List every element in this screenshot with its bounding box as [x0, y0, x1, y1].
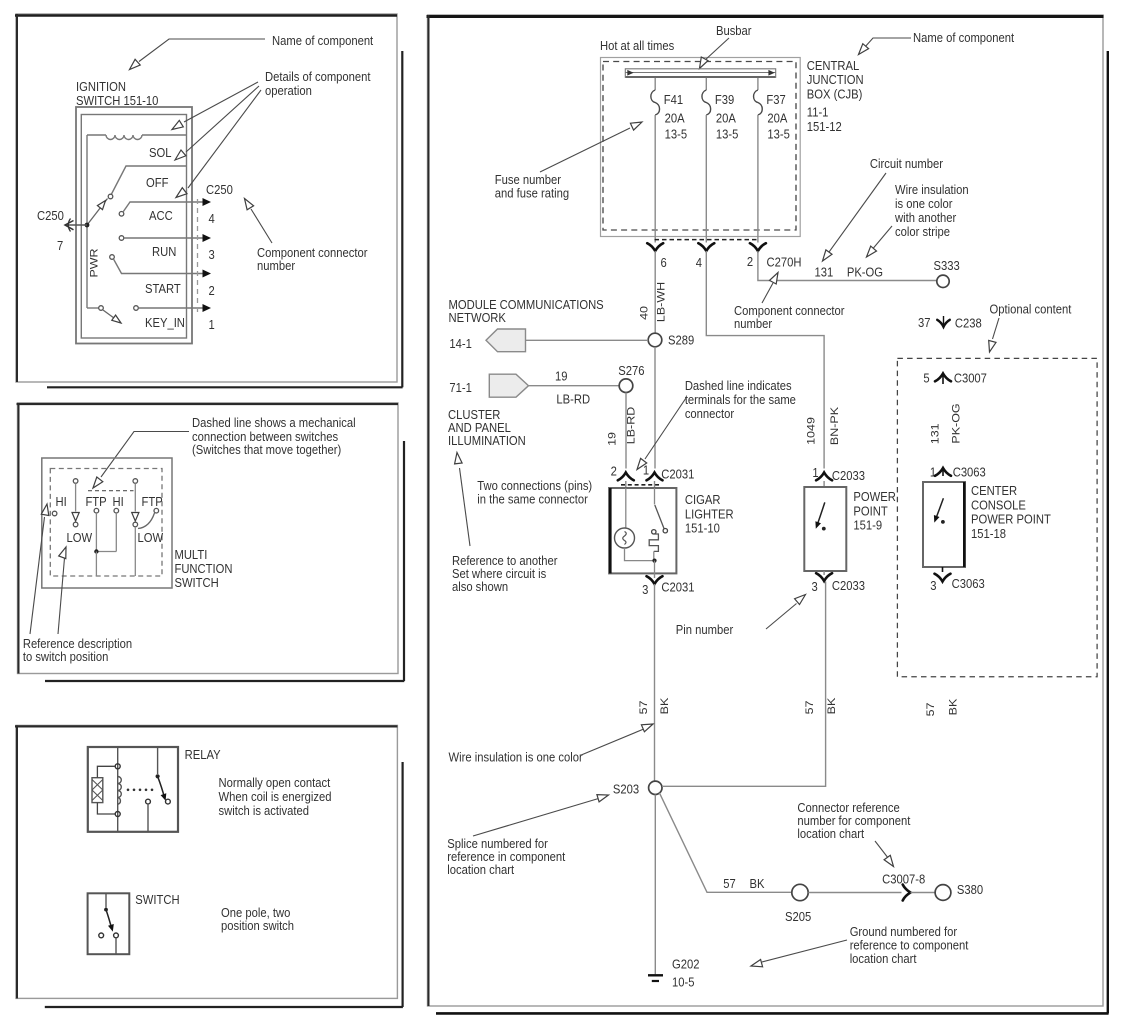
relay switch feed	[157, 747, 159, 774]
cigar lighter stub wires	[625, 481, 627, 488]
svg-text:20A: 20A	[767, 111, 788, 126]
svg-text:terminals for the same: terminals for the same	[685, 392, 796, 407]
optional content dashed boundary	[897, 358, 1097, 676]
svg-text:1: 1	[208, 317, 214, 332]
page shadow of legend panel 2	[403, 441, 405, 681]
off-page connector to sheet 14-1	[486, 329, 526, 352]
cigar lighter lamp lower wire	[625, 548, 655, 561]
svg-text:14-1: 14-1	[449, 336, 472, 351]
switch S2 contact right	[114, 933, 119, 938]
svg-text:ILLUMINATION: ILLUMINATION	[448, 433, 526, 448]
svg-text:CONSOLE: CONSOLE	[971, 498, 1026, 513]
svg-text:G202: G202	[672, 957, 700, 972]
svg-text:number: number	[257, 258, 295, 273]
svg-text:19: 19	[606, 432, 618, 446]
svg-text:LOW: LOW	[67, 530, 93, 545]
svg-text:JUNCTION: JUNCTION	[807, 72, 864, 87]
svg-text:and fuse rating: and fuse rating	[495, 186, 569, 201]
switch B wire to boundary	[95, 552, 97, 577]
leader to HI label	[30, 517, 45, 634]
svg-text:Hot at all times: Hot at all times	[600, 38, 674, 53]
relay coil terminal lower	[115, 812, 120, 817]
switch S2 case	[88, 893, 130, 954]
svg-text:2: 2	[208, 283, 214, 298]
cigar lighter case	[609, 488, 676, 573]
wire from F41 to pin 6	[654, 115, 656, 243]
svg-text:LOW: LOW	[138, 530, 164, 545]
svg-text:4: 4	[696, 255, 702, 270]
legend panel 1 frame	[16, 14, 397, 382]
svg-text:switch is activated: switch is activated	[218, 803, 309, 818]
svg-text:151-12: 151-12	[807, 119, 842, 134]
legend panel 3 frame	[16, 725, 397, 998]
splice S380	[935, 885, 951, 901]
wiper switch A arrowhead	[72, 513, 79, 522]
power point stub	[823, 481, 825, 487]
wire from off-page connector to S289	[526, 339, 649, 341]
wiper switch C common	[133, 479, 138, 484]
switch S2 arm arrowhead	[108, 924, 114, 932]
C3063 pin 3 terminal	[942, 567, 944, 572]
splice S289	[648, 333, 662, 347]
wire power point to S203	[662, 582, 826, 787]
leader to ground area	[762, 940, 847, 962]
svg-text:Wire insulation: Wire insulation	[895, 182, 969, 197]
svg-text:with another: with another	[894, 210, 956, 225]
svg-text:Optional content: Optional content	[990, 302, 1072, 317]
svg-text:C3063: C3063	[952, 576, 985, 591]
svg-text:Dashed line shows a mechanical: Dashed line shows a mechanical	[192, 415, 356, 430]
svg-text:LB-WH: LB-WH	[655, 282, 667, 322]
connector C250 dashed gang line	[197, 199, 199, 312]
svg-text:57: 57	[638, 701, 650, 715]
svg-text:FTP: FTP	[142, 494, 163, 509]
KEY_IN wire	[139, 307, 203, 309]
legend panel 2 frame	[18, 403, 399, 674]
leader to circuit 131	[827, 173, 887, 256]
svg-text:PK-OG: PK-OG	[847, 265, 883, 280]
leader to pin 3 of C2033	[766, 604, 797, 630]
svg-text:C238: C238	[955, 316, 982, 331]
switch B wires	[95, 513, 97, 552]
svg-text:IGNITION: IGNITION	[76, 79, 126, 94]
wire S205 to C3007-8	[808, 892, 901, 894]
fuse F41 wire upper	[654, 78, 656, 90]
PWR rotary arm	[87, 199, 108, 226]
svg-text:3: 3	[642, 582, 648, 597]
svg-text:SWITCH 151-10: SWITCH 151-10	[76, 93, 159, 108]
CJB connector gang dashed line	[655, 239, 759, 241]
svg-text:BK: BK	[947, 698, 959, 715]
svg-text:POINT: POINT	[853, 504, 888, 519]
C3063 pin 1 terminal	[935, 468, 951, 476]
wiper switch C arrowhead	[132, 513, 139, 522]
svg-text:71-1: 71-1	[449, 380, 472, 395]
svg-text:1: 1	[643, 463, 649, 478]
circuit panel frame	[428, 15, 1104, 1006]
svg-text:S276: S276	[618, 363, 644, 378]
relay output contact	[146, 799, 151, 804]
wiper switch C lower contact	[133, 522, 138, 527]
switch S2 output wire	[115, 938, 117, 954]
CJB pin 6 terminal	[647, 243, 663, 251]
fuse F41	[651, 90, 660, 115]
power point case	[804, 487, 846, 571]
svg-text:LB-RD: LB-RD	[625, 407, 637, 444]
C250 pin7 arrowhead	[65, 221, 74, 230]
ACC contact	[119, 212, 124, 217]
mechanical link dashed line	[88, 490, 134, 492]
svg-text:C270H: C270H	[766, 255, 801, 270]
multifunction switch case	[42, 458, 172, 588]
power point contact	[822, 527, 826, 531]
center console switch arm	[936, 498, 944, 519]
svg-text:NETWORK: NETWORK	[449, 310, 506, 325]
switch B contact 2	[114, 508, 119, 513]
cigar lighter lamp feed	[625, 488, 627, 528]
svg-text:PK-OG: PK-OG	[950, 403, 962, 443]
leader to fuse F41	[540, 128, 630, 172]
wire 131 PK-OG from pin 2 to S333	[758, 251, 937, 281]
svg-text:3: 3	[208, 247, 214, 262]
svg-text:is one color: is one color	[895, 196, 952, 211]
svg-text:position switch: position switch	[221, 918, 294, 933]
ACC wire	[123, 202, 203, 212]
svg-text:BK: BK	[750, 876, 765, 891]
svg-text:location chart: location chart	[850, 951, 917, 966]
center console power point case	[923, 482, 965, 567]
central junction box outer case	[601, 58, 801, 237]
C3007 pin 5 terminal	[935, 374, 951, 382]
switch B contact 1	[94, 508, 99, 513]
switch S2 contact left	[99, 933, 104, 938]
wire junction to pin 3	[654, 561, 656, 574]
wire 19 LB-RD to S276	[529, 385, 620, 387]
PWR arm arrowhead	[97, 201, 105, 210]
fuse F37 wire upper	[757, 78, 759, 90]
cigar lighter arm contact	[663, 529, 667, 533]
fuse F39 wire upper	[705, 78, 707, 90]
cigar lighter element feed	[654, 488, 656, 505]
svg-text:131: 131	[814, 265, 833, 280]
svg-text:13-5: 13-5	[716, 127, 739, 142]
svg-text:C2033: C2033	[832, 468, 865, 483]
svg-text:HI: HI	[113, 494, 124, 509]
svg-text:3: 3	[930, 578, 936, 593]
CJB pin 4 terminal	[698, 243, 714, 251]
leader to busbar	[704, 38, 729, 61]
svg-text:POWER POINT: POWER POINT	[971, 512, 1051, 527]
wiper switch A arm wire	[75, 483, 77, 511]
svg-text:RELAY: RELAY	[185, 747, 221, 762]
leader 2 to SOL contact	[186, 86, 259, 152]
junction in cigar lighter	[652, 559, 656, 563]
cigar lighter element contact	[652, 530, 656, 534]
splice S203	[649, 781, 662, 794]
svg-text:6: 6	[661, 255, 667, 270]
C2033 pin 1 terminal	[816, 473, 832, 481]
wire S276 to C2031 pin 2	[625, 393, 627, 469]
wire 40 LB-WH pin6 to S289	[654, 251, 656, 333]
svg-text:S203: S203	[613, 782, 639, 797]
leader 1 to switch internals	[184, 82, 258, 122]
svg-text:C2031: C2031	[661, 580, 694, 595]
svg-text:C3063: C3063	[953, 465, 986, 480]
svg-text:19: 19	[555, 369, 568, 384]
svg-text:13-5: 13-5	[767, 127, 790, 142]
wiper switch A lower contact	[73, 522, 78, 527]
svg-text:40: 40	[638, 306, 650, 320]
page shadow of legend panel 3	[402, 762, 404, 1007]
wire S203 to ground G202	[654, 795, 656, 975]
svg-text:CENTER: CENTER	[971, 483, 1017, 498]
svg-text:operation: operation	[265, 83, 312, 98]
power point switch arm	[817, 502, 825, 525]
ACC pin 4 arrow	[203, 198, 212, 206]
svg-text:F39: F39	[715, 92, 735, 107]
svg-text:BN-PK: BN-PK	[829, 407, 841, 445]
RUN contact	[119, 236, 124, 241]
svg-text:START: START	[145, 281, 181, 296]
svg-text:C250: C250	[206, 182, 233, 197]
START wire	[114, 259, 203, 274]
svg-text:20A: 20A	[665, 111, 686, 126]
power point arm arrowhead	[815, 521, 821, 529]
svg-text:Name of component: Name of component	[913, 30, 1015, 45]
central junction box dashed case	[603, 62, 796, 231]
leader from reference note to illumination	[460, 468, 471, 546]
connector C250 pin 7 wire	[65, 224, 87, 226]
svg-text:4: 4	[208, 211, 214, 226]
leader to S203	[473, 799, 599, 837]
svg-text:151-18: 151-18	[971, 526, 1006, 541]
svg-text:BK: BK	[826, 697, 838, 714]
svg-text:LB-RD: LB-RD	[556, 392, 590, 407]
svg-text:57: 57	[723, 876, 736, 891]
svg-text:F41: F41	[664, 92, 684, 107]
wire 57 BK cigar lighter to S203	[654, 584, 656, 781]
svg-text:C2031: C2031	[661, 467, 694, 482]
svg-text:131: 131	[929, 423, 941, 444]
svg-text:Normally open contact: Normally open contact	[218, 775, 330, 790]
wire: left feed bus of ignition switch	[86, 135, 88, 308]
svg-text:KEY_IN: KEY_IN	[145, 315, 185, 330]
svg-text:7: 7	[57, 238, 63, 253]
svg-text:Dashed line indicates: Dashed line indicates	[685, 378, 792, 393]
page shadow of circuit panel	[1107, 51, 1109, 1013]
C2031 gang dashed line	[621, 484, 659, 486]
wire C3007-8 to S380	[911, 892, 936, 894]
svg-text:location chart: location chart	[447, 862, 514, 877]
svg-text:location chart: location chart	[797, 826, 864, 841]
wire S289 to C2031 pin 1	[654, 347, 656, 469]
svg-text:RUN: RUN	[152, 244, 176, 259]
svg-text:10-5: 10-5	[672, 975, 695, 990]
svg-text:(Switches that move together): (Switches that move together)	[192, 442, 341, 457]
cigar lighter heating element	[649, 534, 658, 551]
busbar	[625, 68, 775, 70]
svg-text:F37: F37	[766, 92, 786, 107]
svg-text:Wire insulation is one color: Wire insulation is one color	[449, 750, 583, 765]
C2031 pin 2 terminal	[618, 473, 634, 481]
svg-text:CENTRAL: CENTRAL	[807, 58, 860, 73]
splice S205	[792, 884, 808, 900]
relay output wire	[147, 804, 149, 832]
wiper switch A common	[73, 479, 78, 484]
center console contact	[941, 520, 945, 524]
svg-text:in the same connector: in the same connector	[477, 492, 588, 507]
off-page connector to sheet 71-1	[489, 374, 528, 397]
RUN wire	[124, 237, 203, 239]
relay coil wiring	[97, 766, 114, 777]
svg-text:C2033: C2033	[832, 578, 865, 593]
page shadow of legend panel 1	[401, 51, 403, 387]
svg-text:MULTI: MULTI	[174, 547, 207, 562]
switch S2 arm	[106, 910, 112, 928]
svg-text:to switch position: to switch position	[23, 649, 109, 664]
svg-text:57: 57	[925, 703, 937, 717]
relay coil terminal upper	[115, 764, 120, 769]
svg-text:connector: connector	[685, 406, 734, 421]
svg-text:FUNCTION: FUNCTION	[174, 561, 232, 576]
svg-text:1: 1	[930, 465, 936, 480]
wiper switch C arm wire	[134, 483, 136, 511]
svg-text:OFF: OFF	[146, 175, 168, 190]
leader 3 to OFF contact	[188, 90, 261, 188]
C2031 pin 3 terminal	[647, 576, 663, 584]
relay arm arrowhead	[161, 793, 167, 801]
cigar lighter illumination lamp	[615, 528, 635, 548]
wire S203 to S205	[659, 793, 791, 893]
svg-text:S205: S205	[785, 909, 811, 924]
ignition switch S1 inner case	[81, 115, 186, 339]
switch S2 feed wire	[105, 893, 107, 908]
wiper switch C wire to boundary	[134, 527, 136, 576]
C2031 pin 1 terminal	[647, 473, 663, 481]
svg-text:37: 37	[918, 315, 931, 330]
START contact	[110, 255, 115, 260]
svg-text:HI: HI	[56, 494, 67, 509]
leader to LOW label	[58, 558, 65, 634]
svg-text:C3007: C3007	[954, 371, 987, 386]
svg-text:BK: BK	[659, 697, 671, 714]
wire from F37 to pin 2	[757, 115, 759, 243]
junction switch B	[94, 549, 98, 553]
svg-text:Name of component: Name of component	[272, 33, 374, 48]
svg-text:number: number	[734, 316, 772, 331]
leader to C250 label	[251, 209, 272, 243]
svg-text:POWER: POWER	[853, 489, 896, 504]
svg-text:1049: 1049	[805, 417, 817, 445]
C2031 pin 3 stub	[654, 573, 656, 578]
wire from F39 to pin 4	[705, 115, 707, 243]
svg-text:Details of component: Details of component	[265, 69, 371, 84]
CJB pin 2 terminal	[750, 243, 766, 251]
relay NO contact	[166, 799, 171, 804]
wire 1049 BN-PK from pin 4	[706, 251, 824, 469]
C2033 pin 3 stub	[823, 571, 825, 575]
RUN pin 3 arrow	[203, 234, 212, 242]
svg-text:LIGHTER: LIGHTER	[685, 507, 734, 522]
switch S2 pivot	[104, 908, 108, 912]
cigar lighter element lower wire	[653, 551, 655, 560]
relay switch pivot	[156, 774, 160, 778]
svg-text:2: 2	[747, 254, 753, 269]
solenoid coil SOL	[87, 134, 106, 136]
svg-text:C3007-8: C3007-8	[882, 872, 925, 887]
KEY_IN contact left	[87, 307, 99, 309]
leader to C2031 gang line	[645, 398, 686, 459]
KEY_IN pin 1 arrow	[203, 304, 212, 312]
svg-text:S289: S289	[668, 333, 694, 348]
C2033 pin 3 terminal	[816, 573, 832, 581]
fuse F39	[702, 90, 711, 115]
KEY_IN arm arrowhead	[112, 315, 121, 323]
svg-text:5: 5	[923, 371, 929, 386]
cigar lighter switch arm	[655, 505, 664, 529]
svg-text:Busbar: Busbar	[716, 23, 752, 38]
leader to mechanical link	[101, 432, 189, 478]
svg-text:SWITCH: SWITCH	[174, 575, 218, 590]
svg-text:PWR: PWR	[88, 248, 100, 277]
contact HI (switch A)	[52, 511, 57, 516]
center console arm arrowhead	[934, 515, 940, 523]
splice S276	[619, 379, 633, 393]
ground G202	[648, 974, 663, 976]
svg-text:BOX (CJB): BOX (CJB)	[807, 87, 863, 102]
KEY_IN contact right	[134, 306, 139, 311]
svg-text:also shown: also shown	[452, 579, 508, 594]
contact FTP (switch C)	[154, 508, 159, 513]
START pin 2 arrow	[203, 270, 212, 278]
relay internal bus	[117, 747, 119, 832]
leader to C3007-8	[875, 841, 889, 859]
svg-text:20A: 20A	[716, 111, 737, 126]
svg-text:2: 2	[611, 464, 617, 479]
C238 pin 37 terminal	[943, 316, 945, 325]
leader to optional box	[993, 318, 1000, 339]
svg-text:57: 57	[804, 701, 816, 715]
relay K1 case	[88, 747, 178, 832]
leader to CJB name	[865, 38, 912, 48]
svg-text:13-5: 13-5	[665, 127, 688, 142]
fuse F37	[754, 90, 763, 115]
switch C curved arm	[138, 513, 155, 529]
relay solenoid humps	[118, 777, 122, 805]
leader to C270H label	[762, 283, 773, 303]
relay switch arm	[158, 776, 165, 797]
OFF contact wire	[112, 166, 187, 194]
KEY_IN arm	[103, 310, 116, 320]
svg-text:C250: C250	[37, 208, 64, 223]
svg-text:151-10: 151-10	[685, 521, 720, 536]
svg-text:151-9: 151-9	[853, 518, 882, 533]
svg-text:11-1: 11-1	[807, 105, 829, 120]
leader to 57 BK wire	[580, 729, 645, 756]
relay coil winding box	[92, 778, 103, 803]
svg-text:SWITCH: SWITCH	[135, 892, 179, 907]
OFF contact	[108, 194, 113, 199]
svg-text:3: 3	[812, 579, 818, 594]
svg-text:SOL: SOL	[149, 145, 172, 160]
relay mechanical dotted link	[127, 789, 130, 792]
svg-text:ACC: ACC	[149, 208, 173, 223]
svg-text:S380: S380	[957, 882, 983, 897]
ignition switch S1 outer case	[76, 107, 192, 344]
svg-text:Pin number: Pin number	[676, 622, 733, 637]
svg-text:CIGAR: CIGAR	[685, 492, 721, 507]
leader to ignition switch name	[139, 39, 265, 62]
